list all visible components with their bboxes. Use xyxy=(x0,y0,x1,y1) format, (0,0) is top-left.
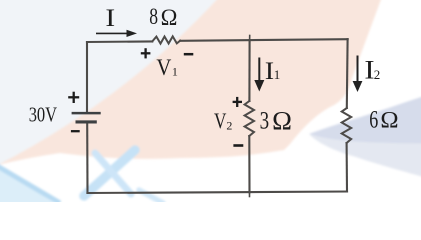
wire top-left horizontal (left of 8 ohm resistor) xyxy=(87,40,152,43)
peach diagonal band watermark xyxy=(0,0,383,166)
current arrow I1 xyxy=(254,58,264,92)
current arrow I2 xyxy=(353,56,363,93)
current arrow I xyxy=(96,30,137,37)
svg-text:1: 1 xyxy=(172,65,178,79)
wire left vertical above battery xyxy=(86,42,88,111)
svg-text:8: 8 xyxy=(149,4,158,29)
svg-text:Ω: Ω xyxy=(380,108,398,133)
wire middle vertical below 3 ohm resistor xyxy=(248,136,250,192)
svg-text:30V: 30V xyxy=(29,102,58,126)
minus sign of V2 xyxy=(233,144,243,147)
svg-text:Ω: Ω xyxy=(272,107,292,136)
gray top-left watermark xyxy=(0,0,222,167)
blue triangle bottom-left watermark xyxy=(0,164,62,208)
svg-text:Ω: Ω xyxy=(161,5,178,30)
resistor R 3ohm zigzag xyxy=(245,101,254,136)
plus sign of battery xyxy=(68,92,79,103)
middle branch top junction stub xyxy=(249,36,251,41)
svg-text:V: V xyxy=(214,108,226,133)
svg-text:3: 3 xyxy=(260,105,270,134)
svg-text:1: 1 xyxy=(274,67,281,82)
svg-text:2: 2 xyxy=(226,119,232,133)
wire right vertical below 6 ohm resistor xyxy=(346,143,348,192)
svg-text:I: I xyxy=(265,56,274,85)
svg-text:2: 2 xyxy=(374,67,381,82)
svg-text:I: I xyxy=(105,5,115,32)
plus sign of V1 xyxy=(141,48,151,58)
middle branch bottom junction stub xyxy=(249,192,251,196)
resistor R 8ohm zigzag xyxy=(152,36,180,43)
battery 30V plates xyxy=(72,113,101,122)
blue X glyph watermark xyxy=(84,150,135,196)
wire top-right horizontal (right of 8 ohm resistor) xyxy=(180,39,347,41)
blue swoosh bottom-right watermark xyxy=(309,95,421,144)
wire right vertical above 6 ohm resistor xyxy=(346,39,349,108)
resistor R 6ohm zigzag xyxy=(342,108,352,143)
plus sign of V2 xyxy=(233,97,242,107)
svg-text:V: V xyxy=(156,55,171,80)
wire bottom horizontal xyxy=(88,192,348,194)
minus sign of V1 xyxy=(184,53,194,56)
wire left vertical below battery xyxy=(86,125,88,194)
svg-text:6: 6 xyxy=(369,105,378,134)
wire middle vertical above 3 ohm resistor xyxy=(248,40,250,101)
minus sign of battery xyxy=(71,130,80,132)
